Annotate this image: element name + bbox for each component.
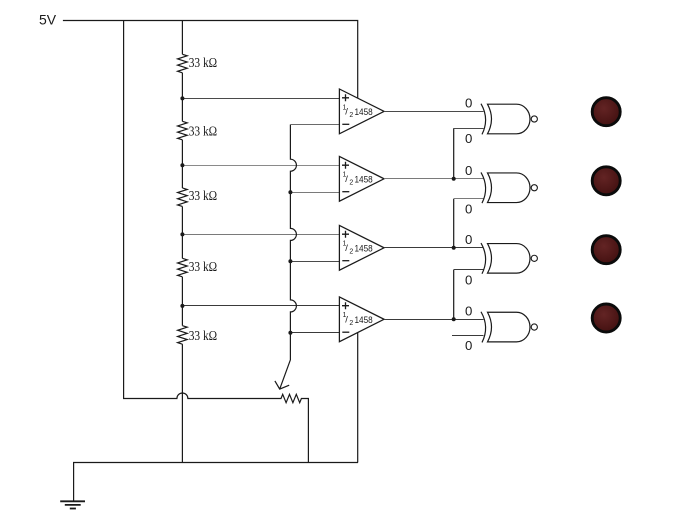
svg-text:33 kΩ: 33 kΩ <box>189 188 218 203</box>
svg-text:0: 0 <box>465 303 472 318</box>
svg-text:0: 0 <box>465 131 472 146</box>
svg-text:0: 0 <box>465 272 472 287</box>
svg-text:33 kΩ: 33 kΩ <box>189 259 218 274</box>
svg-text:0: 0 <box>465 202 472 217</box>
svg-text:5V: 5V <box>39 12 57 28</box>
svg-text:0: 0 <box>465 163 472 178</box>
svg-text:33 kΩ: 33 kΩ <box>189 328 218 343</box>
svg-text:33 kΩ: 33 kΩ <box>189 124 218 139</box>
svg-text:0: 0 <box>465 338 472 353</box>
svg-text:33 kΩ: 33 kΩ <box>189 55 218 70</box>
svg-text:0: 0 <box>465 232 472 247</box>
svg-text:0: 0 <box>465 96 472 111</box>
